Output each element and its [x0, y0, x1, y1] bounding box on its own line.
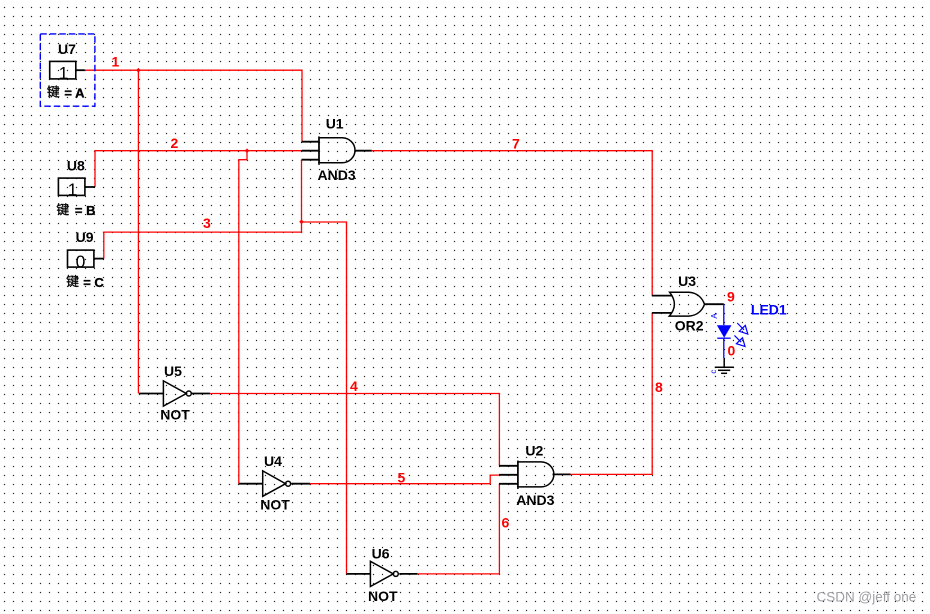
svg-text:0: 0	[76, 251, 86, 271]
svg-text:U8: U8	[67, 157, 85, 173]
svg-text:3: 3	[203, 215, 211, 231]
svg-text:NOT: NOT	[260, 497, 290, 513]
svg-text:1: 1	[59, 63, 69, 83]
svg-text:= A: = A	[64, 85, 85, 100]
svg-text:A: A	[710, 313, 719, 319]
svg-text:0: 0	[728, 343, 736, 359]
svg-text:AND3: AND3	[318, 167, 356, 183]
svg-text:4: 4	[350, 378, 358, 394]
svg-text:8: 8	[655, 379, 663, 395]
svg-text:OR2: OR2	[675, 318, 704, 334]
svg-text:c: c	[709, 370, 718, 374]
svg-text:U4: U4	[264, 453, 282, 469]
svg-text:5: 5	[398, 470, 406, 486]
svg-text:NOT: NOT	[368, 588, 398, 604]
svg-text:9: 9	[727, 289, 735, 305]
svg-text:1: 1	[112, 54, 120, 70]
svg-text:U7: U7	[58, 41, 76, 57]
svg-text:1: 1	[68, 180, 78, 200]
svg-text:U3: U3	[678, 273, 696, 289]
svg-text:NOT: NOT	[160, 407, 190, 423]
svg-text:AND3: AND3	[516, 492, 554, 508]
svg-text:U5: U5	[164, 363, 182, 379]
svg-text:U9: U9	[76, 229, 94, 245]
svg-text:U6: U6	[372, 545, 390, 561]
svg-text:CSDN @jeff one: CSDN @jeff one	[817, 590, 917, 605]
svg-text:= C: = C	[83, 275, 104, 290]
svg-text:= B: = B	[75, 203, 96, 218]
svg-text:LED1: LED1	[751, 302, 787, 318]
svg-text:6: 6	[502, 515, 510, 531]
svg-text:2: 2	[171, 135, 179, 151]
svg-text:U2: U2	[525, 442, 543, 458]
svg-text:U1: U1	[326, 115, 344, 131]
svg-text:7: 7	[512, 136, 520, 152]
